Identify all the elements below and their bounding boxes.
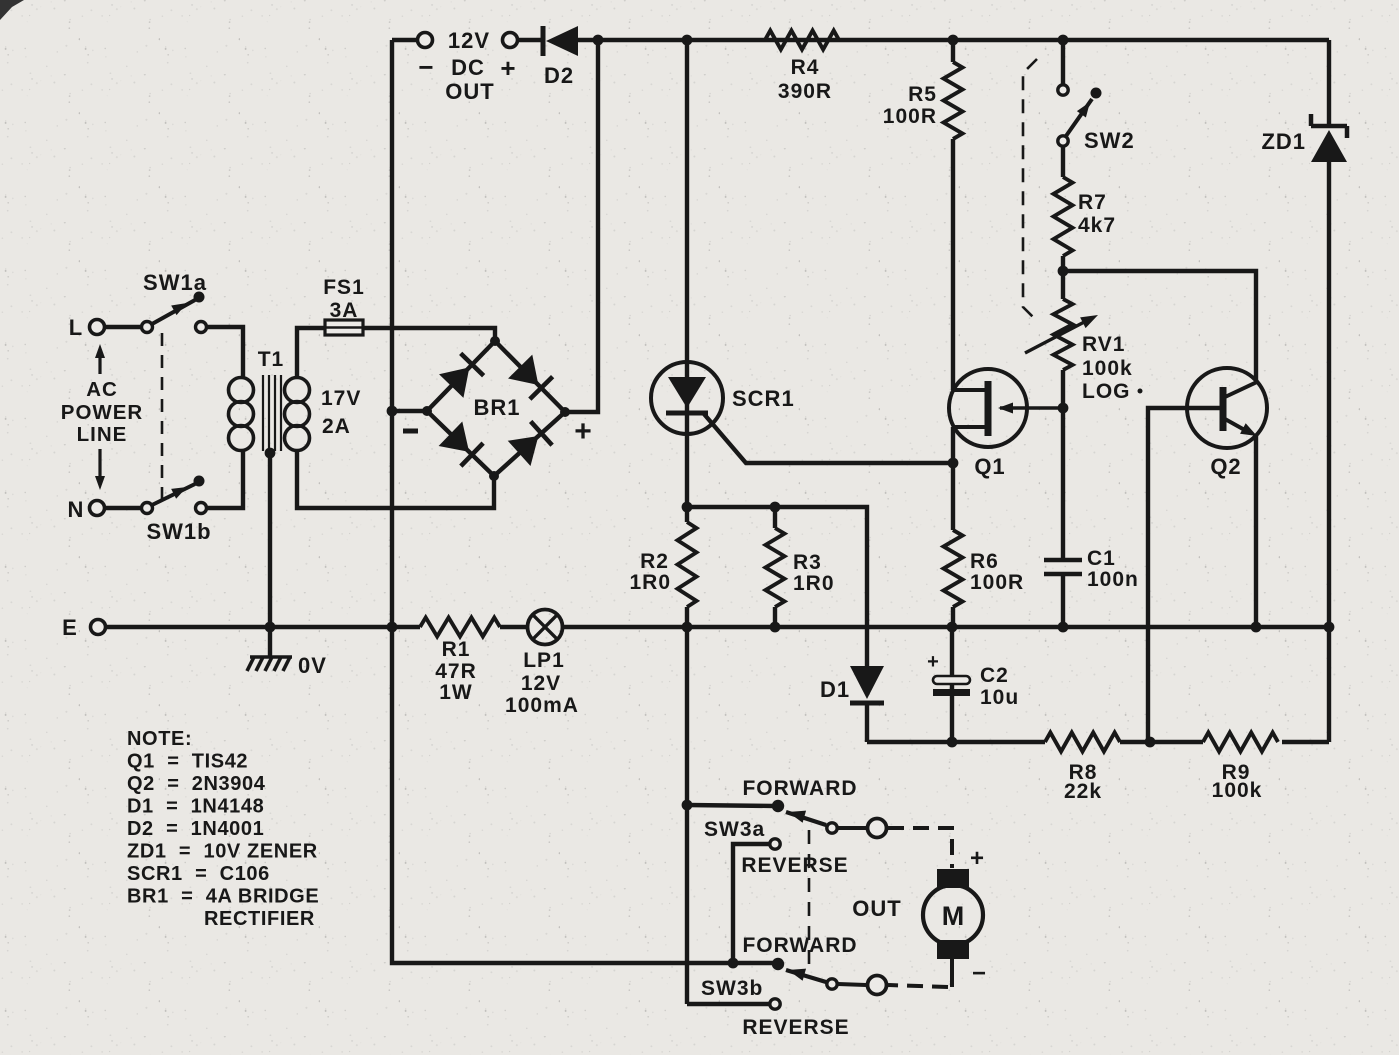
wire SW3b reverse link bbox=[687, 1002, 769, 1006]
label BR1 plus bbox=[574, 415, 592, 448]
wire R2/R3 top link to D1 bbox=[687, 507, 867, 666]
svg-text:10u: 10u bbox=[980, 686, 1019, 709]
svg-text:22k: 22k bbox=[1064, 780, 1102, 803]
svg-text:LP1: LP1 bbox=[523, 649, 565, 672]
wire T1 secondary bottom bbox=[297, 450, 494, 508]
resistor R9 100k bbox=[1203, 733, 1278, 803]
svg-text:DC: DC bbox=[451, 55, 485, 80]
svg-text:L: L bbox=[69, 315, 83, 340]
svg-text:12V: 12V bbox=[521, 672, 561, 695]
wire SW2 gang link (dashed) bbox=[1023, 59, 1038, 322]
wire FS1 to BR1 bbox=[363, 328, 495, 343]
svg-text:Q2 = 2N3904: Q2 = 2N3904 bbox=[127, 773, 266, 795]
svg-text:SCR1: SCR1 bbox=[732, 386, 795, 411]
node top rail junctions bbox=[593, 35, 1069, 46]
switch SW3a bbox=[682, 777, 887, 841]
resistor R2 1R0 bbox=[629, 522, 696, 607]
svg-text:100R: 100R bbox=[970, 571, 1024, 594]
svg-text:LOG: LOG bbox=[1082, 380, 1131, 403]
resistor R7 4k7 bbox=[1054, 177, 1117, 256]
svg-text:SW3b: SW3b bbox=[701, 977, 763, 1000]
diode BR1-d (bottom to right) bbox=[508, 421, 552, 466]
switch SW3a reverse contact bbox=[733, 839, 849, 963]
switch SW1a bbox=[142, 270, 207, 333]
svg-text:AC: AC bbox=[86, 378, 118, 401]
svg-text:R2: R2 bbox=[640, 550, 669, 573]
terminal +12V DC OUT bbox=[500, 33, 517, 84]
wire bottom R8/R9 line bbox=[867, 740, 1203, 744]
svg-text:R5: R5 bbox=[908, 83, 937, 106]
transformer T1 secondary winding bbox=[285, 378, 362, 451]
resistor R8 22k bbox=[1045, 733, 1120, 804]
node R2/R3 top junctions bbox=[682, 502, 781, 513]
wire N to SW1b bbox=[105, 506, 142, 510]
svg-text:POWER: POWER bbox=[61, 401, 143, 424]
wire R5/Q1/R6 rail bbox=[951, 139, 955, 627]
wire Q2 base to R8/R9 junction bbox=[1148, 408, 1220, 742]
svg-text:NOTE:: NOTE: bbox=[127, 728, 192, 750]
svg-text:SW1b: SW1b bbox=[146, 519, 211, 544]
label T1 bbox=[258, 348, 285, 371]
wire SW1b to T1 primary bbox=[207, 450, 243, 508]
svg-text:100R: 100R bbox=[883, 105, 937, 128]
transformer T1 primary winding bbox=[229, 378, 254, 451]
switch SW3b reverse contact bbox=[742, 999, 849, 1039]
svg-text:1R0: 1R0 bbox=[793, 572, 835, 595]
terminal -12V DC OUT bbox=[418, 33, 434, 83]
resistor R6 100R bbox=[944, 530, 1025, 607]
svg-text:REVERSE: REVERSE bbox=[742, 1016, 849, 1039]
arrow AC to L bbox=[95, 344, 105, 374]
label 12V DC OUT bbox=[445, 28, 494, 104]
zener diode ZD1 bbox=[1261, 114, 1347, 162]
wire RV1 wiper node to Q2 collector bbox=[1063, 271, 1256, 382]
node R7/RV1 junction bbox=[1058, 266, 1069, 277]
transformer T1 core bbox=[263, 375, 281, 451]
wire ZD1 rail bbox=[1282, 40, 1329, 742]
diode D1 bbox=[820, 666, 884, 703]
wire T1 secondary top bbox=[297, 328, 325, 378]
svg-text:ZD1: ZD1 bbox=[1261, 129, 1306, 154]
wire SW3a to motor + (dashed) bbox=[888, 828, 952, 868]
svg-text:E: E bbox=[62, 615, 78, 640]
svg-text:R4: R4 bbox=[791, 56, 820, 79]
thyristor SCR1 bbox=[651, 362, 795, 434]
svg-text:RV1: RV1 bbox=[1082, 333, 1125, 356]
svg-text:4k7: 4k7 bbox=[1078, 214, 1116, 237]
motor M OUT bbox=[852, 845, 986, 987]
svg-text:−: − bbox=[972, 960, 986, 987]
wire L to SW1a bbox=[105, 325, 142, 329]
wire SW1 gang link (dashed) bbox=[161, 333, 164, 502]
svg-text:0V: 0V bbox=[298, 653, 327, 678]
svg-text:M: M bbox=[942, 901, 965, 931]
switch SW3b bbox=[701, 934, 887, 1000]
svg-text:T1: T1 bbox=[258, 348, 285, 371]
svg-text:100mA: 100mA bbox=[505, 694, 579, 717]
svg-text:1R0: 1R0 bbox=[629, 571, 671, 594]
svg-text:Q1: Q1 bbox=[974, 454, 1005, 479]
scan corner artifact bbox=[0, 0, 24, 20]
fuse FS1 3A bbox=[323, 276, 365, 335]
svg-text:FORWARD: FORWARD bbox=[742, 934, 857, 957]
wire left -DC rail down to SW3b feed bbox=[392, 40, 774, 963]
svg-text:BR1: BR1 bbox=[473, 395, 520, 420]
svg-text:C2: C2 bbox=[980, 664, 1009, 687]
transistor Q2 bbox=[1148, 368, 1267, 479]
svg-text:SW1a: SW1a bbox=[143, 270, 207, 295]
wire SCR1 gate bbox=[704, 414, 953, 463]
label AC POWER LINE bbox=[61, 378, 143, 446]
wire T1 screen to 0V bbox=[268, 453, 272, 657]
svg-text:BR1 = 4A BRIDGE: BR1 = 4A BRIDGE bbox=[127, 886, 319, 908]
svg-text:RECTIFIER: RECTIFIER bbox=[204, 908, 315, 930]
node BR1 vertices bbox=[422, 336, 570, 481]
svg-text:D1 = 1N4148: D1 = 1N4148 bbox=[127, 796, 264, 818]
switch SW2 bbox=[1058, 40, 1135, 153]
label NOTE component list bbox=[127, 728, 319, 930]
wire Q2 emitter to E bbox=[1254, 436, 1258, 627]
wire SW3b to motor - (dashed) bbox=[888, 958, 952, 987]
svg-text:+: + bbox=[500, 53, 515, 83]
arrow AC to N bbox=[95, 449, 105, 490]
terminal N bbox=[68, 497, 105, 522]
svg-text:Q2: Q2 bbox=[1210, 454, 1241, 479]
lamp LP1 bbox=[505, 610, 579, 718]
svg-text:1W: 1W bbox=[439, 681, 473, 704]
terminal E bbox=[62, 615, 105, 640]
svg-text:+: + bbox=[927, 651, 939, 673]
node Q1 emitter / RV1 junction bbox=[1058, 403, 1069, 414]
svg-text:17V: 17V bbox=[321, 387, 361, 410]
bridge rectifier BR1 outline bbox=[427, 341, 565, 476]
svg-text:REVERSE: REVERSE bbox=[741, 854, 848, 877]
node E / 0V line bbox=[106, 625, 1329, 629]
capacitor C2 10u bbox=[927, 627, 1019, 742]
svg-text:−: − bbox=[418, 52, 433, 82]
svg-text:2A: 2A bbox=[322, 415, 351, 438]
wire BR1 minus to rail bbox=[392, 409, 427, 413]
wire top +12V rail bbox=[392, 38, 1329, 42]
svg-text:SW3a: SW3a bbox=[704, 818, 765, 841]
svg-text:D2: D2 bbox=[544, 63, 574, 88]
svg-text:FORWARD: FORWARD bbox=[742, 777, 857, 800]
svg-text:D2 = 1N4001: D2 = 1N4001 bbox=[127, 818, 264, 840]
svg-text:OUT: OUT bbox=[852, 896, 901, 921]
node E line junctions bbox=[265, 622, 1335, 633]
svg-text:SW2: SW2 bbox=[1084, 128, 1135, 153]
diode BR1-b (top to right) bbox=[508, 355, 553, 400]
label BR1 minus bbox=[403, 429, 418, 434]
svg-text:390R: 390R bbox=[778, 80, 832, 103]
diode D2 bbox=[543, 26, 578, 88]
terminal L bbox=[69, 315, 105, 340]
diode BR1-c (left to bottom) bbox=[439, 422, 484, 467]
transistor Q1 bbox=[949, 369, 1063, 479]
wire BR1 + output rail bbox=[567, 40, 598, 412]
svg-text:ZD1 = 10V ZENER: ZD1 = 10V ZENER bbox=[127, 841, 318, 863]
svg-text:47R: 47R bbox=[435, 660, 477, 683]
node T1 screen tap bbox=[265, 448, 276, 459]
svg-text:D1: D1 bbox=[820, 677, 850, 702]
svg-text:OUT: OUT bbox=[445, 79, 494, 104]
svg-text:R3: R3 bbox=[793, 551, 822, 574]
svg-text:FS1: FS1 bbox=[323, 276, 365, 299]
svg-text:Q1 = TIS42: Q1 = TIS42 bbox=[127, 751, 248, 773]
svg-text:C1: C1 bbox=[1087, 547, 1116, 570]
svg-text:SCR1 = C106: SCR1 = C106 bbox=[127, 863, 270, 885]
node bottom line junctions bbox=[947, 737, 1156, 748]
svg-text:+: + bbox=[574, 415, 592, 448]
potentiometer RV1 100k LOG bbox=[1025, 299, 1143, 403]
node BR1 minus junction bbox=[387, 406, 398, 417]
wire SCR1 anode/cathode rail bbox=[685, 40, 689, 1004]
svg-text:R1: R1 bbox=[442, 638, 471, 661]
svg-text:3A: 3A bbox=[330, 299, 359, 322]
svg-text:100k: 100k bbox=[1082, 357, 1133, 380]
resistor R5 100R bbox=[883, 40, 963, 139]
wire SW1a to T1 primary bbox=[207, 327, 243, 378]
svg-text:100n: 100n bbox=[1087, 568, 1139, 591]
wire SW3 gang link (dashed) bbox=[808, 830, 811, 968]
svg-text:+: + bbox=[970, 845, 984, 872]
resistor R3 1R0 bbox=[766, 507, 835, 627]
resistor R1 47R 1W bbox=[420, 618, 500, 705]
wire SW2/R7/RV1/C1 rail bbox=[1061, 146, 1065, 627]
node SCR1 gate junction bbox=[948, 458, 959, 469]
svg-text:R7: R7 bbox=[1078, 191, 1107, 214]
resistor R4 390R bbox=[765, 31, 839, 104]
diode BR1-a (left to top) bbox=[439, 353, 484, 398]
svg-text:LINE: LINE bbox=[77, 423, 128, 446]
svg-text:R6: R6 bbox=[970, 550, 999, 573]
svg-text:100k: 100k bbox=[1212, 779, 1263, 802]
capacitor C1 100n bbox=[1044, 547, 1139, 591]
svg-text:N: N bbox=[68, 497, 85, 522]
switch SW1b bbox=[142, 476, 212, 545]
ground 0V symbol bbox=[247, 653, 327, 678]
wire D1 to C2/R8 line bbox=[865, 704, 869, 742]
svg-text:12V: 12V bbox=[448, 28, 490, 53]
